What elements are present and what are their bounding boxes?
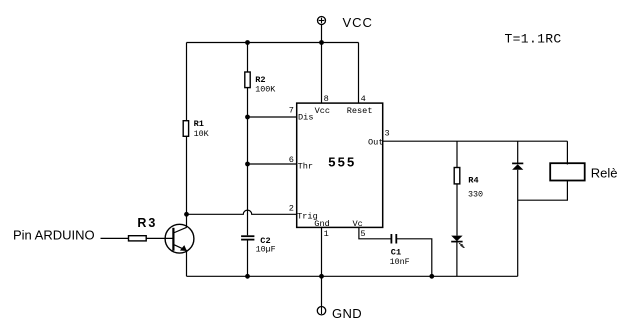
svg-text:R2: R2 bbox=[255, 75, 265, 85]
wire R2 branch top bbox=[247, 43, 249, 73]
svg-text:Vc: Vc bbox=[353, 219, 363, 229]
svg-text:10nF: 10nF bbox=[390, 257, 410, 267]
wire ground rail bbox=[187, 275, 518, 277]
resistor R1 bbox=[183, 121, 188, 137]
svg-text:555: 555 bbox=[328, 154, 356, 169]
IC 555 body U1 bbox=[297, 103, 383, 227]
wire R4 branch from Out line bbox=[456, 141, 458, 167]
wire Thr pin 6 bbox=[248, 163, 297, 165]
wire diode anode down to ground corner bbox=[517, 170, 519, 276]
transistor Q1 emitter lead bbox=[173, 244, 186, 250]
svg-text:3: 3 bbox=[385, 129, 390, 139]
node junction pin1/ground bbox=[319, 274, 324, 279]
wire pin 4 Reset stem bbox=[358, 43, 360, 104]
wire R1 bottom to trig node bbox=[186, 136, 188, 214]
transistor Q1 collector lead bbox=[173, 227, 186, 233]
wire R4 to LED bbox=[456, 184, 458, 236]
svg-text:5: 5 bbox=[360, 229, 365, 239]
resistor R4 bbox=[454, 168, 460, 184]
LED D1 emission arrows bbox=[459, 243, 465, 248]
svg-text:R3: R3 bbox=[137, 216, 157, 230]
wire relay top feed bbox=[566, 141, 568, 164]
wire Trig pin 2 with hop over C2 line bbox=[187, 210, 297, 214]
wire LED to ground rail bbox=[456, 242, 458, 277]
node junction R2 top bbox=[245, 40, 250, 45]
resistor R2 bbox=[245, 72, 250, 88]
wire Dis pin 7 bbox=[248, 116, 297, 118]
wire relay bottom return bbox=[518, 181, 568, 201]
svg-text:Pin ARDUINO: Pin ARDUINO bbox=[13, 228, 95, 243]
wire pin 3 Out line bbox=[383, 140, 568, 142]
svg-text:Reset: Reset bbox=[347, 106, 373, 116]
relay coil K1 bbox=[550, 163, 585, 180]
wire Thr node down to C2 bbox=[247, 164, 249, 235]
wire pin 8 Vcc stem bbox=[321, 43, 323, 104]
svg-text:R1: R1 bbox=[194, 119, 204, 129]
svg-text:VCC: VCC bbox=[343, 15, 373, 30]
wire pin 5 Vc stem and run to C1 bbox=[359, 227, 391, 238]
wire base from Pin ARDUINO to R3 bbox=[101, 237, 129, 239]
svg-text:10K: 10K bbox=[194, 129, 210, 139]
VCC symbol bbox=[318, 17, 326, 25]
svg-text:R4: R4 bbox=[468, 176, 478, 186]
svg-text:4: 4 bbox=[361, 94, 366, 104]
svg-text:1: 1 bbox=[324, 229, 329, 239]
node junction C2/ground bbox=[245, 274, 250, 279]
diode D2 triangle bbox=[512, 164, 523, 170]
svg-text:Gnd: Gnd bbox=[314, 219, 329, 229]
resistor R3 bbox=[129, 236, 147, 241]
svg-text:T=1.1RC: T=1.1RC bbox=[505, 32, 562, 47]
transistor Q1 emitter arrow bbox=[180, 245, 187, 251]
svg-text:10µF: 10µF bbox=[256, 245, 276, 255]
node junction R1/collector/Trig bbox=[184, 212, 189, 217]
LED D1 triangle bbox=[451, 236, 462, 242]
wire collector up to node bbox=[186, 214, 188, 227]
svg-text:Vcc: Vcc bbox=[315, 106, 330, 116]
node junction Thr bbox=[245, 162, 250, 167]
wire top rail bbox=[187, 42, 359, 44]
svg-text:Dis: Dis bbox=[298, 113, 313, 123]
wire R3 to transistor base bbox=[146, 237, 173, 239]
transistor Q1 circle bbox=[165, 224, 194, 253]
svg-text:Thr: Thr bbox=[298, 161, 313, 171]
svg-text:Relè: Relè bbox=[591, 165, 618, 180]
svg-text:100K: 100K bbox=[255, 85, 276, 95]
diode D2 cathode bar bbox=[512, 162, 523, 164]
svg-text:GND: GND bbox=[332, 306, 362, 321]
GND symbol bbox=[317, 307, 325, 315]
wire R2 bottom to Dis node bbox=[247, 88, 249, 117]
wire C2 bottom to ground rail bbox=[247, 241, 249, 277]
LED D1 cathode bar bbox=[451, 241, 462, 243]
svg-text:C1: C1 bbox=[391, 248, 401, 258]
svg-text:330: 330 bbox=[468, 190, 483, 200]
svg-text:7: 7 bbox=[289, 106, 294, 116]
svg-text:2: 2 bbox=[289, 203, 294, 213]
capacitor C1 bbox=[391, 234, 396, 244]
node junction Dis bbox=[245, 115, 250, 120]
wire VCC stem bbox=[321, 25, 323, 43]
svg-text:8: 8 bbox=[324, 94, 329, 104]
node junction C1/ground bbox=[429, 274, 434, 279]
wire C1 to ground rail bbox=[397, 239, 432, 276]
node junction VCC/top-rail bbox=[319, 40, 324, 45]
svg-text:6: 6 bbox=[289, 155, 294, 165]
svg-text:Out: Out bbox=[368, 138, 383, 148]
capacitor C2 bbox=[241, 236, 254, 239]
wire emitter down bbox=[186, 251, 188, 277]
wire Dis node to Thr node bbox=[247, 117, 249, 164]
wire left rail upper (to R1) bbox=[186, 43, 188, 121]
transistor Q1 base bar bbox=[172, 228, 174, 251]
wire pin 1 Gnd stem bbox=[321, 227, 323, 306]
wire diode branch from Out line bbox=[517, 141, 519, 163]
